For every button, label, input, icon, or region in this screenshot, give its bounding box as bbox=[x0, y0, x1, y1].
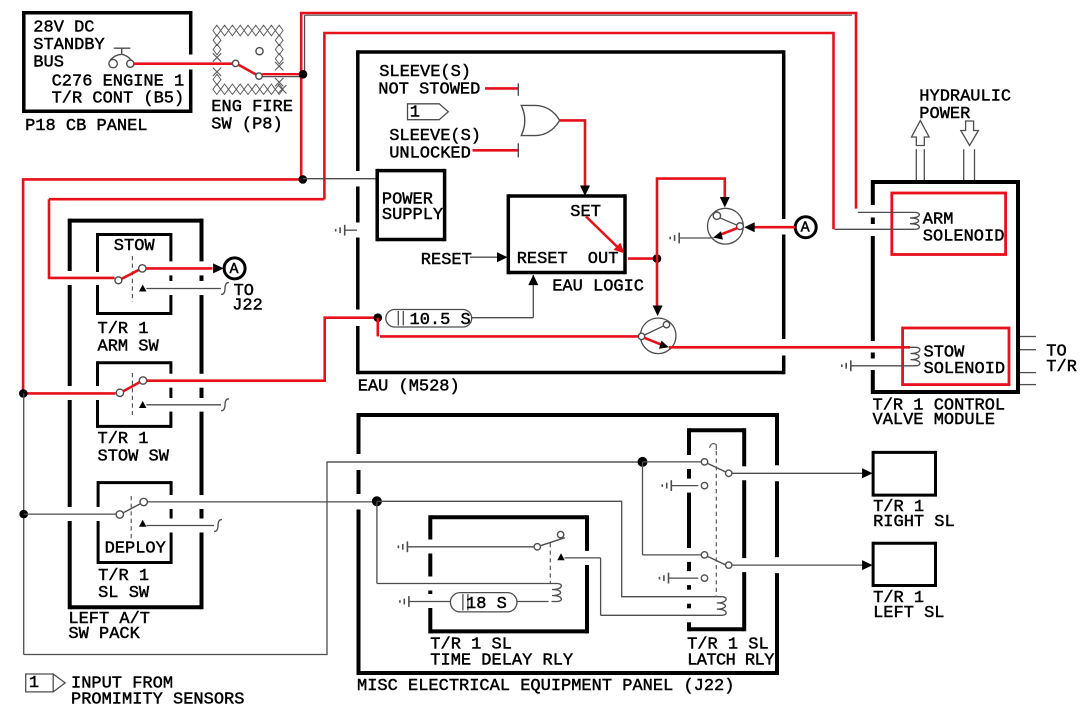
svg-text:VALVE MODULE: VALVE MODULE bbox=[873, 411, 995, 430]
svg-text:J22: J22 bbox=[232, 296, 263, 315]
svg-text:1: 1 bbox=[410, 104, 420, 123]
svg-text:SL SW: SL SW bbox=[98, 584, 150, 603]
svg-text:OUT: OUT bbox=[588, 250, 619, 269]
svg-text:T/R: T/R bbox=[1046, 358, 1077, 377]
svg-text:STANDBY: STANDBY bbox=[33, 36, 104, 55]
svg-text:BUS: BUS bbox=[33, 54, 64, 73]
svg-text:EAU (M528): EAU (M528) bbox=[358, 377, 460, 396]
svg-text:SW (P8): SW (P8) bbox=[211, 116, 282, 135]
svg-text:LATCH RLY: LATCH RLY bbox=[687, 651, 774, 670]
svg-text:NOT STOWED: NOT STOWED bbox=[378, 80, 480, 99]
svg-text:RESET: RESET bbox=[421, 251, 472, 270]
svg-text:T/R CONT (B5): T/R CONT (B5) bbox=[52, 89, 185, 108]
svg-text:STOW SW: STOW SW bbox=[98, 447, 170, 466]
svg-text:RIGHT SL: RIGHT SL bbox=[873, 513, 955, 532]
svg-text:T/R 1: T/R 1 bbox=[98, 320, 149, 339]
svg-text:LEFT SL: LEFT SL bbox=[873, 604, 944, 623]
svg-text:ENG FIRE: ENG FIRE bbox=[211, 98, 293, 117]
svg-text:SOLENOID: SOLENOID bbox=[923, 227, 1005, 246]
svg-text:SW PACK: SW PACK bbox=[68, 625, 140, 644]
svg-text:SET: SET bbox=[570, 203, 601, 222]
svg-text:MISC ELECTRICAL EQUIPMENT PANE: MISC ELECTRICAL EQUIPMENT PANEL (J22) bbox=[357, 677, 734, 696]
svg-text:RESET: RESET bbox=[517, 250, 568, 269]
svg-text:18 S: 18 S bbox=[466, 595, 507, 614]
svg-text:10.5 S: 10.5 S bbox=[410, 311, 471, 330]
svg-text:SLEEVE(S): SLEEVE(S) bbox=[379, 63, 471, 82]
svg-text:POWER: POWER bbox=[919, 105, 970, 124]
svg-text:SLEEVE(S): SLEEVE(S) bbox=[389, 127, 481, 146]
svg-text:A: A bbox=[801, 220, 810, 237]
svg-text:DEPLOY: DEPLOY bbox=[105, 540, 166, 559]
svg-text:ARM SW: ARM SW bbox=[98, 338, 160, 357]
svg-text:PROMIMITY SENSORS: PROMIMITY SENSORS bbox=[71, 691, 244, 710]
svg-text:UNLOCKED: UNLOCKED bbox=[389, 145, 471, 164]
svg-text:SOLENOID: SOLENOID bbox=[924, 360, 1006, 379]
svg-text:EAU LOGIC: EAU LOGIC bbox=[552, 277, 644, 296]
svg-text:A: A bbox=[230, 261, 239, 278]
svg-text:STOW: STOW bbox=[114, 237, 156, 256]
svg-text:HYDRAULIC: HYDRAULIC bbox=[919, 88, 1011, 107]
svg-text:1: 1 bbox=[29, 674, 39, 693]
svg-text:P18 CB PANEL: P18 CB PANEL bbox=[25, 117, 147, 136]
svg-text:TIME DELAY RLY: TIME DELAY RLY bbox=[430, 651, 573, 670]
svg-text:28V DC: 28V DC bbox=[33, 18, 94, 37]
svg-text:SUPPLY: SUPPLY bbox=[382, 206, 443, 225]
